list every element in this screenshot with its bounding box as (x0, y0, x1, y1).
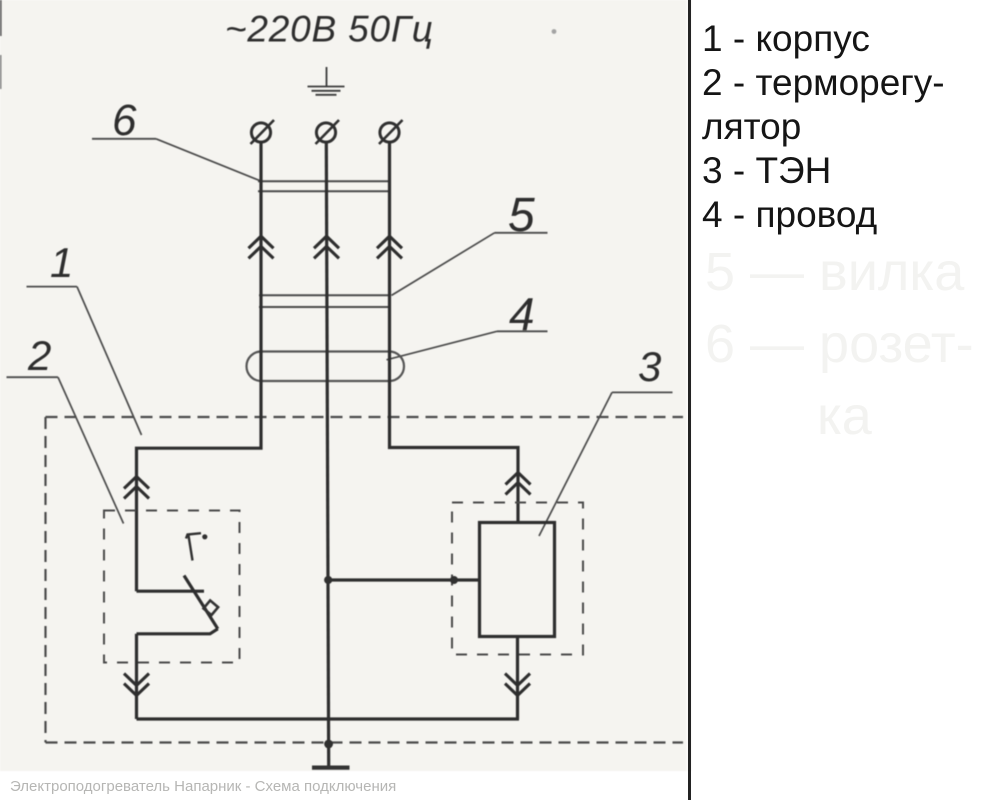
label 5 (495, 189, 548, 242)
faint erased legend (705, 236, 974, 452)
junction dot bottom center (324, 740, 333, 749)
wire left (phase) (137, 142, 262, 592)
svg-text:6: 6 (112, 96, 137, 145)
junction dot at heater box edge (450, 576, 458, 584)
svg-text:1: 1 (50, 239, 73, 286)
socket contact pin left (Ø) (251, 120, 275, 144)
thermostat switch blade (184, 576, 218, 629)
leader line 1 (77, 287, 142, 435)
svg-text:~220В 50Гц: ~220В 50Гц (225, 9, 434, 50)
junction dot on center wire (324, 576, 332, 584)
svg-text:3: 3 (638, 343, 661, 390)
leader line 6 (156, 139, 262, 182)
chevron arrows up, center wire top (314, 236, 339, 258)
legend text (702, 17, 945, 237)
wire right (390, 142, 519, 523)
socket contact pin right (Ø) (379, 120, 403, 144)
label 6 (92, 96, 156, 145)
heater element TEN (rect) (480, 523, 555, 637)
chevron arrows up, heater branch (506, 473, 531, 495)
scan edge artifact (0, 0, 2, 36)
thermostat thermal element (small square) (203, 600, 218, 615)
leader line 5 (392, 233, 495, 296)
chevron arrows up, right wire top (377, 236, 402, 258)
thermostat fixed contact (137, 590, 205, 593)
wire center (neutral) (326, 142, 328, 767)
chevron arrows down, heater out (505, 674, 530, 696)
panel divider (688, 0, 690, 800)
leader line 2 (58, 377, 124, 523)
scan background (0, 0, 686, 771)
chevron arrows down, thermostat out (124, 674, 149, 696)
caption (10, 778, 396, 795)
thermostat temperature label Г (186, 533, 207, 560)
label 4 (497, 288, 548, 340)
socket band upper (plug 6) (258, 181, 390, 191)
label 1 (27, 239, 78, 287)
svg-text:5: 5 (508, 189, 535, 242)
thermostat 2 dashed box (104, 511, 240, 663)
ground (bottom) (312, 765, 350, 769)
plug band lower (plug 5) (259, 295, 391, 307)
cable grommet 4 (stadium) (247, 352, 405, 382)
chevron arrows up, thermostat branch (124, 477, 149, 499)
label 3 (612, 343, 673, 392)
scan speck artifact (552, 29, 557, 34)
chevron arrows up, left wire top (249, 236, 274, 258)
heater 3 dashed box (452, 503, 583, 655)
svg-text:4: 4 (509, 288, 535, 340)
svg-text:2: 2 (27, 332, 51, 379)
label 2 (7, 332, 59, 379)
leader line 4 (387, 331, 498, 360)
leader line 3 (539, 392, 612, 536)
branch wire to heater (328, 578, 479, 581)
socket contact pin center (Ø) (316, 120, 340, 144)
wire thermostat down (135, 634, 138, 719)
bottom return wire (137, 717, 520, 720)
wire heater down (516, 637, 519, 720)
enclosure 1 (корпус) dashed box (46, 417, 684, 743)
thermostat lower contact (137, 629, 218, 634)
ground (protective earth, top) (308, 67, 345, 95)
